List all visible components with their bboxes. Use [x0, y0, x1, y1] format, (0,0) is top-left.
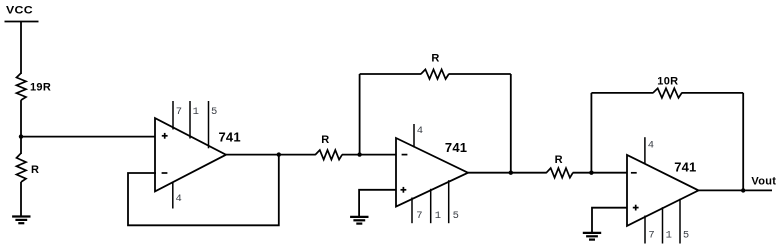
wire feedback rail left U2 — [360, 73, 422, 75]
U2 pin 7 — [412, 198, 423, 224]
svg-text:1: 1 — [435, 210, 441, 222]
node F output junction — [741, 188, 745, 192]
wire node E to U3 inverting input — [591, 172, 627, 174]
svg-text:5: 5 — [683, 230, 689, 242]
op-amp U3 741 body — [627, 155, 699, 226]
svg-text:7: 7 — [648, 230, 654, 242]
wire node E feedback riser — [590, 93, 592, 173]
wire feedback rail right U3 — [682, 92, 744, 94]
wire U2 output — [468, 172, 511, 174]
op-amp U2 value label 741 — [445, 140, 467, 155]
U2 pin 4 — [414, 124, 423, 148]
power label VCC — [6, 4, 33, 16]
svg-text:741: 741 — [674, 160, 696, 175]
op-amp U2 741 body — [396, 138, 468, 207]
wire feedback drop to U2 output — [510, 74, 512, 173]
wire node B to R2 — [279, 154, 316, 156]
U2 pin 5 — [449, 180, 459, 223]
wire VCC rail to 19R — [20, 22, 22, 75]
ground U2 — [350, 217, 368, 224]
op-amp U1 741 body — [155, 118, 226, 191]
svg-text:19R: 19R — [30, 82, 51, 94]
svg-text:4: 4 — [648, 140, 654, 152]
wire 19R to node A — [20, 100, 22, 154]
resistor R4 series input — [546, 154, 573, 178]
svg-text:5: 5 — [211, 106, 217, 118]
svg-text:R: R — [555, 154, 563, 166]
svg-text:R: R — [431, 53, 439, 65]
wire U3 noninverting input to ground — [592, 208, 628, 233]
resistor 19R — [17, 73, 52, 100]
U1 pin 5 — [209, 101, 218, 148]
wire node D to R4 — [511, 172, 547, 174]
svg-text:1: 1 — [666, 230, 672, 242]
VCC rail — [5, 21, 39, 23]
resistor R5 feedback 10R — [653, 76, 682, 98]
U3 pin 7 — [645, 216, 655, 244]
wire R1 to ground — [20, 182, 22, 216]
wire node C to U2 inverting input — [360, 154, 397, 156]
svg-text:741: 741 — [219, 130, 241, 145]
svg-text:4: 4 — [417, 125, 423, 137]
node B U1 output junction — [277, 152, 281, 156]
wire node A to op-amp U1 noninverting input — [21, 136, 156, 138]
op-amp U1 value label 741 — [219, 130, 241, 145]
wire feedback drop to U3 output — [742, 93, 744, 190]
ground divider — [12, 217, 30, 224]
node C U2 inverting input junction — [357, 152, 361, 156]
node E U3 inverting input junction — [589, 171, 593, 175]
wire feedback rail left U3 — [591, 92, 653, 94]
wire U1 feedback loop — [128, 155, 279, 226]
wire U1 output — [226, 154, 279, 156]
wire U3 output — [699, 189, 773, 191]
svg-text:7: 7 — [416, 210, 422, 222]
ground U3 — [583, 233, 601, 240]
node D U2 output junction — [509, 171, 513, 175]
svg-text:R: R — [321, 134, 329, 146]
svg-text:Vout: Vout — [751, 175, 776, 187]
wire R2 to node C — [342, 154, 360, 156]
wire node C feedback riser — [359, 74, 361, 155]
U3 pin 4 — [645, 137, 654, 164]
resistor R2 series input — [315, 134, 342, 159]
U1 pin 4 — [173, 183, 182, 209]
node A divider junction — [19, 134, 23, 138]
svg-text:741: 741 — [445, 140, 467, 155]
op-amp U3 value label 741 — [674, 160, 696, 175]
U3 pin 5 — [680, 199, 689, 244]
svg-text:VCC: VCC — [6, 4, 33, 16]
output label Vout — [751, 175, 776, 187]
U3 pin 1 — [663, 207, 672, 243]
wire R4 to node E — [573, 172, 592, 174]
svg-text:R: R — [31, 164, 39, 176]
wire U2 noninverting input to ground — [359, 190, 396, 217]
U1 pin 7 — [173, 101, 182, 130]
resistor R3 feedback — [421, 53, 449, 79]
resistor R1 — [17, 153, 40, 182]
U1 pin 1 — [190, 101, 199, 139]
svg-text:5: 5 — [453, 210, 459, 222]
U2 pin 1 — [431, 189, 441, 223]
svg-text:1: 1 — [193, 106, 199, 118]
svg-text:7: 7 — [176, 106, 182, 118]
svg-text:4: 4 — [176, 193, 182, 205]
wire feedback rail right U2 — [449, 73, 511, 75]
svg-text:10R: 10R — [657, 76, 678, 88]
